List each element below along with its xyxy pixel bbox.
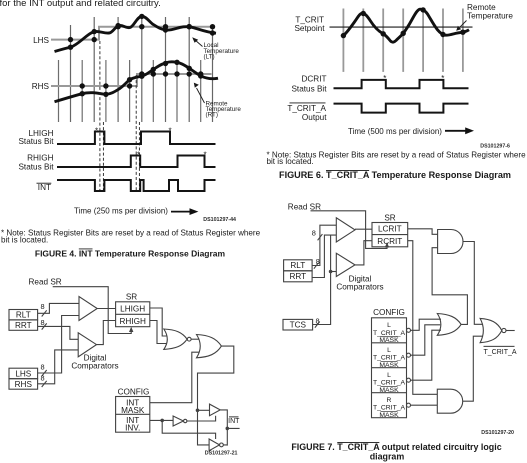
wire: comparator U5 output to LCRIT [355,228,372,230]
svg-text:Output: Output [302,113,327,122]
pin bubble CONFIG cell 4 [407,403,411,407]
node Remote Temperature callout [194,83,242,119]
pin bubble CONFIG cell 1 [407,328,411,332]
wire: RHS setpoint step line [51,74,212,86]
wire: NOR G1 output to OR gate G2 [191,338,199,340]
svg-text:MASK: MASK [121,406,145,415]
svg-text:FIGURE 7. T_CRIT_A output rela: FIGURE 7. T_CRIT_A output related circui… [291,442,501,452]
wire: RLT bus to comparator U5 [312,225,336,265]
svg-text:T_CRIT_A: T_CRIT_A [373,380,406,387]
comparator U5 [336,218,355,242]
caption figure 4 [35,249,226,259]
svg-text:FIGURE 6. T_CRIT_A Temperature: FIGURE 6. T_CRIT_A Temperature Response … [279,170,511,180]
wire: RRT bus to comparator U6 [312,235,336,277]
wire: INT INV direct to buffer U4 enable [162,420,215,439]
wire: dashed marker at LHS trip point [99,41,101,191]
svg-text:MASK: MASK [379,412,399,419]
svg-text:Temperature: Temperature [467,11,513,20]
junction at buffer U3 input branch [196,409,200,413]
svg-text:T_CRIT_A: T_CRIT_A [373,330,406,337]
bus slash and width 8 on TCS wire [315,322,320,328]
svg-text:8: 8 [316,316,320,325]
svg-text:8: 8 [41,363,45,372]
svg-text:INV.: INV. [125,424,140,433]
bus slash and width 8 on LHS wire [42,370,47,376]
node sample dots on RHS setpoint line [80,71,204,88]
wire: CONFIG cell 1 to OR gate G6 [411,319,442,330]
wire: comparator U2 output to RHIGH [97,321,116,345]
svg-text:Status Bit: Status Bit [291,84,327,93]
svg-text:T_CRIT_A: T_CRIT_A [373,405,406,412]
wire: sample vertical lines figure 6 [343,9,463,72]
comparator U1 (local) [79,297,97,321]
wire: RHIGH status bit trace [57,156,216,168]
node INT label [37,183,52,192]
wire: T_CRIT setpoint line [330,26,473,28]
node CONFIG cell 3: L T_CRIT_A MASK [373,372,406,394]
register RRT [9,320,38,330]
svg-text:T_CRIT_A: T_CRIT_A [373,355,406,362]
node time axis label figure 6 [348,127,474,136]
register RLT [9,310,38,320]
svg-text:RCRIT: RCRIT [377,237,402,246]
svg-text:(LT): (LT) [204,53,215,60]
junction at INT INV fanout [160,419,164,423]
svg-text:LCRIT: LCRIT [378,225,402,234]
svg-text:DS101297-21: DS101297-21 [205,451,238,457]
svg-text:Time (250 ms per division): Time (250 ms per division) [74,207,168,216]
svg-text:8: 8 [41,302,45,311]
svg-text:Status Bit: Status Bit [18,137,54,146]
node Remote Temperature callout figure 6 [456,3,513,31]
wire: dashed marker at RHIGH reset [138,122,140,191]
NOR gate G1 [164,329,187,349]
svg-text:8: 8 [312,229,316,238]
svg-text:CONFIG: CONFIG [118,387,150,396]
wire: INT output trace [57,180,216,191]
svg-text:8: 8 [316,257,320,266]
wire: RHS bus to comparator U2 [38,350,79,384]
inverter G3 [173,416,183,426]
svg-text:*: * [383,74,386,83]
svg-text:Setpoint: Setpoint [294,24,325,33]
wire: OR G6 output feedback to AND G4 input 2 [432,248,467,325]
wire: comparator U1 output to LHIGH [97,308,115,310]
comparator U6 [336,253,355,276]
wire: LHIGH to NOR gate G1 [150,308,167,336]
svg-text:TCS: TCS [290,321,307,330]
svg-text:MASK: MASK [379,337,399,344]
svg-text:Comparators: Comparators [336,282,383,291]
tri-state buffer U3 [210,404,221,416]
wire: CONFIG cell 4 to AND gate G5 [411,404,438,406]
node CONFIG cell 1: L T_CRIT_A MASK [373,322,406,344]
tri-state buffer U4 (inverting) [209,439,219,451]
svg-text:(RT): (RT) [206,112,218,119]
svg-text:DS101297-44: DS101297-44 [203,217,236,223]
wire: LCRIT to AND gate G4 [408,229,438,235]
comparator U2 (remote) [78,333,96,357]
svg-text:RHS: RHS [32,82,50,91]
wire: LHS setpoint step line [51,27,211,40]
svg-text:MASK: MASK [379,387,399,394]
wire: buffer outputs tied to INT pad [220,410,239,446]
svg-text:*: * [137,151,140,160]
node Local Temperature callout [192,37,239,60]
svg-text:RRT: RRT [15,321,32,330]
AND gate G4 [438,230,463,254]
svg-text:Comparators: Comparators [71,362,118,371]
svg-text:INT: INT [38,183,51,192]
svg-text:diagram: diagram [370,452,405,462]
wire: AND G5 output to NOR G7 input 2 [463,336,483,401]
wire: LHS sample vertical lines [71,17,213,122]
caption figure 6 [279,170,511,180]
wire: LHS bus to comparator U1 [38,316,79,374]
wire: Read SR to SR register reset (fig5) [53,287,132,334]
svg-text:*: * [204,151,207,160]
svg-text:SR: SR [384,213,395,222]
svg-text:CONFIG: CONFIG [373,308,405,317]
junction at INT output node [226,427,230,431]
svg-text:LHS: LHS [15,369,31,378]
svg-text:DS101297-6: DS101297-6 [480,144,510,150]
svg-text:bit is located.: bit is located. [1,236,48,245]
wire: INT INV to inverter G3 [150,419,173,421]
svg-text:8: 8 [41,318,45,327]
wire: RCRIT to AND gate G5 [408,241,438,395]
wire: comparator U6 output to RCRIT [355,241,372,265]
wire: inverter G3 output to buffer U3 enable [187,416,216,421]
pin bubble CONFIG cell 2 [407,353,411,357]
svg-text:R: R [387,397,392,404]
node CONFIG cell 2: L T_CRIT_A MASK [373,347,406,369]
wire: OR G2 output to output buffers [198,346,234,445]
register RHS [9,379,38,390]
NOR gate G7 [480,318,502,342]
svg-text:RLT: RLT [16,311,31,320]
node sample dots on LHS setpoint line [68,24,215,42]
svg-text:FIGURE 4. INT Temperature Resp: FIGURE 4. INT Temperature Response Diagr… [35,249,226,259]
wire: RHIGH to NOR gate G1 [150,321,167,344]
page intro text (clipped at top) [0,0,161,9]
svg-text:*: * [95,127,98,136]
svg-text:T_CRIT_A: T_CRIT_A [287,104,326,113]
wire: NOR G7 output to T_CRIT_A pad [506,330,515,332]
wire: dashed marker at RHS trip point [135,75,137,191]
wire: Read SR to SR register reset (fig7) [311,211,388,249]
wire: INT MASK to OR gate G2 [150,352,200,403]
wire: RRT bus to comparator U2 [38,326,79,339]
remote temperature sine curve [343,9,469,42]
AND gate G5 [437,389,462,413]
bus slash and width 8 on vertical bus (fig7) [318,234,323,240]
svg-text:8: 8 [41,373,45,382]
svg-text:T_CRIT_A: T_CRIT_A [484,349,517,356]
node sample dots on local curve [68,14,215,50]
svg-text:MASK: MASK [379,362,399,369]
svg-text:INT: INT [228,418,240,425]
register LHS [9,368,38,379]
register RRT (fig7) [284,271,313,282]
svg-text:RLT: RLT [290,261,305,270]
svg-text:L: L [387,372,391,379]
node sample dots on sine curve [341,7,466,38]
node T_CRIT_A Output label [287,103,327,122]
bus slash and width 8 on RRT wire [42,323,47,329]
node CONFIG cell 4: R T_CRIT_A MASK [373,397,406,419]
wire: AND G4 output to NOR G7 input 1 [463,242,483,325]
wire: dashed marker at LHIGH reset [102,122,104,191]
svg-text:Time (500 ms per division): Time (500 ms per division) [348,127,442,136]
svg-text:DCRIT: DCRIT [301,74,326,83]
svg-text:LHIGH: LHIGH [120,304,145,313]
svg-text:Read SR: Read SR [288,203,321,212]
svg-text:Read SR: Read SR [29,278,62,287]
bus slash and width 8 on RHS wire [42,381,47,387]
wire: RLT bus to comparator U1 [38,303,79,313]
wire: RHS sample vertical lines [59,60,201,122]
wire: TCS bus to comparators [313,235,331,324]
local temperature curve [55,16,217,51]
wire: LHIGH status bit trace [57,132,216,145]
svg-text:DS101297-20: DS101297-20 [481,430,514,436]
wire: DCRIT status bit trace [334,80,469,88]
svg-text:Status Bit: Status Bit [18,162,54,171]
node sample dots on remote curve [80,60,204,97]
svg-text:RHIGH: RHIGH [120,317,146,326]
OR gate G6 [437,314,461,336]
svg-text:RHS: RHS [15,380,33,389]
svg-text:RRT: RRT [289,272,306,281]
svg-text:L: L [387,347,391,354]
svg-text:LHS: LHS [33,36,49,45]
node time axis label figure 4 [74,207,198,216]
pin bubble CONFIG cell 3 [407,378,411,382]
wire: CONFIG cell 3 to OR gate G6 [411,330,442,380]
register TCS [283,319,313,330]
svg-text:*: * [169,127,172,136]
wire: CONFIG cell 2 to OR gate G6 [411,325,441,355]
bus slash and width 8 on RLT wire [42,310,47,316]
svg-text:L: L [387,322,391,329]
register RLT (fig7) [284,260,313,271]
svg-text:bit is located.: bit is located. [267,157,314,166]
wire: branch to buffer U3 input [198,409,210,411]
junction on TCS vertical [329,270,333,274]
caption figure 7 [291,442,501,462]
bus slash and width 8 on RLT wire (fig7) [314,263,319,269]
OR gate G2 [197,335,222,358]
svg-text:RHIGH: RHIGH [27,154,53,163]
wire: T_CRIT_A output trace [334,104,469,113]
remote temperature curve [55,62,219,102]
wire: TCS branch to comparator U6 input [331,271,337,273]
svg-text:SR: SR [126,293,137,302]
svg-text:for the INT output and related: for the INT output and related circuitry… [0,0,161,9]
svg-text:*: * [441,74,444,83]
